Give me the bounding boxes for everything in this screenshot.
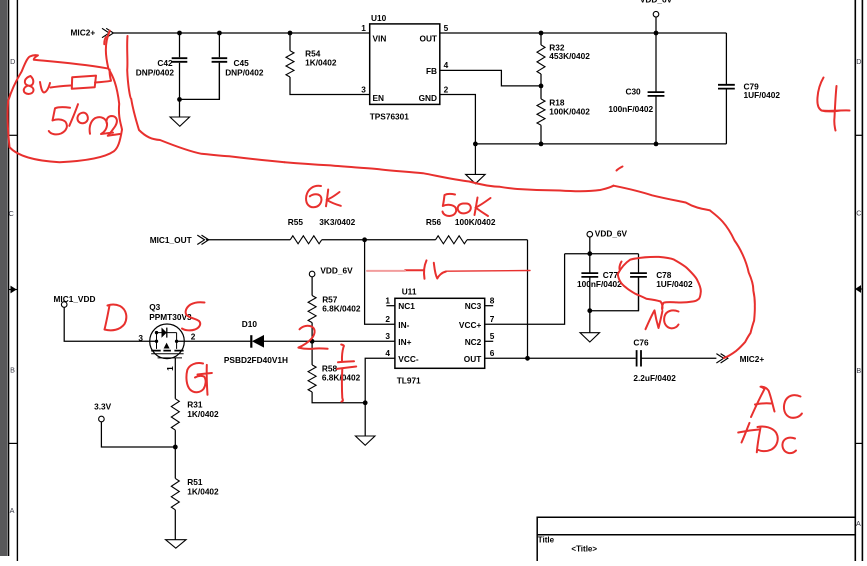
node junction OUT/feedback xyxy=(525,356,530,361)
svg-text:MIC1_VDD: MIC1_VDD xyxy=(54,294,96,304)
resistor R57 xyxy=(311,277,313,296)
connector MIC2+ (off-page, left) xyxy=(102,28,113,37)
node junction OUT/VDD xyxy=(654,31,659,36)
right border line outer xyxy=(861,0,863,561)
red annotation: long wavy horizontal xyxy=(285,162,614,191)
svg-text:VCC-: VCC- xyxy=(398,354,419,364)
wire D10 to junction/IN+ xyxy=(263,340,395,342)
svg-text:VDD_6V: VDD_6V xyxy=(640,0,673,4)
svg-text:NC3: NC3 xyxy=(465,301,482,311)
wire VCC- to ground xyxy=(365,358,395,403)
svg-text:C: C xyxy=(856,209,861,218)
wire C77/C78 bottom join xyxy=(590,277,639,311)
op-amp regulator U10 box xyxy=(370,24,440,105)
red annotation: +Dc text xyxy=(738,423,759,443)
ground (C77/C78) xyxy=(580,333,600,342)
node junction VCC-/R58 gnd xyxy=(363,400,368,405)
red annotation: wire from box with hook xyxy=(95,70,111,83)
svg-text:100K/0402: 100K/0402 xyxy=(549,106,590,116)
wire MIC2+ to U10 VIN xyxy=(113,32,369,34)
svg-text:100nF/0402: 100nF/0402 xyxy=(577,279,622,289)
svg-text:MIC2+: MIC2+ xyxy=(71,28,96,38)
svg-text:DNP/0402: DNP/0402 xyxy=(136,67,175,77)
capacitor C78 xyxy=(638,254,640,311)
red annotation: capacitor sketch lighter lead xyxy=(367,270,405,272)
red annotation: 6k text xyxy=(306,186,321,208)
red annotation: capacitor sketch on IN- line xyxy=(405,269,423,271)
svg-text:IN-: IN- xyxy=(398,320,409,330)
svg-text:VDD_6V: VDD_6V xyxy=(595,228,628,238)
node junction VDD/C77 xyxy=(587,251,592,256)
svg-text:1: 1 xyxy=(165,366,175,371)
capacitor C42 xyxy=(179,33,181,99)
node junction FB divider xyxy=(539,84,544,89)
diode D10 PSBD2FD40V1H xyxy=(253,336,264,347)
svg-text:NC1: NC1 xyxy=(398,301,415,311)
svg-text:1UF/0402: 1UF/0402 xyxy=(744,90,781,100)
connector MIC1_OUT (off-page) xyxy=(197,235,208,244)
svg-text:1K/0402: 1K/0402 xyxy=(187,486,219,496)
svg-text:VDD_6V: VDD_6V xyxy=(320,265,353,275)
ground (R51) xyxy=(166,540,187,549)
wire VCC+ to VDD rail xyxy=(485,254,565,325)
red annotation: letter S near Q3 xyxy=(182,302,205,330)
U11 pin 8 NC3 stub xyxy=(485,305,494,307)
power symbol MIC1_VDD xyxy=(61,302,67,308)
svg-text:5: 5 xyxy=(444,23,449,33)
wire C76 to MIC2+ out xyxy=(641,357,716,359)
svg-text:VCC+: VCC+ xyxy=(459,320,482,330)
resistor R32 xyxy=(540,33,542,45)
connector MIC2+ output xyxy=(716,354,727,363)
node junction rail/gnd xyxy=(473,142,478,147)
svg-text:U10: U10 xyxy=(371,13,387,23)
red annotation: numeral 4 right xyxy=(817,78,849,131)
red annotation: vertical squiggle with cap bars xyxy=(341,345,344,362)
svg-text:1K/0402: 1K/0402 xyxy=(305,58,337,68)
capacitor C76 xyxy=(637,350,641,366)
transistor Q3 PPMT30V3 (PMOS) xyxy=(150,324,185,359)
svg-text:100nF/0402: 100nF/0402 xyxy=(608,104,653,114)
red annotation: wire to box xyxy=(51,86,71,88)
svg-text:PSBD2FD40V1H: PSBD2FD40V1H xyxy=(224,355,288,365)
svg-text:6.8K/0402: 6.8K/0402 xyxy=(322,304,361,314)
wire 3.3V to R31/R51 junction xyxy=(101,422,175,447)
red annotation: NC loop around C78 xyxy=(618,257,701,310)
svg-text:D10: D10 xyxy=(242,319,258,329)
svg-text:C: C xyxy=(9,209,14,218)
red annotation: letter D near Q3 xyxy=(105,305,127,331)
svg-text:3K3/0402: 3K3/0402 xyxy=(319,217,355,227)
svg-text:1K/0402: 1K/0402 xyxy=(187,409,219,419)
svg-text:NC2: NC2 xyxy=(465,337,482,347)
wire to ground xyxy=(179,99,181,117)
capacitor C77 xyxy=(589,254,591,311)
ground (U11) xyxy=(355,436,375,445)
node junction rail/R18 xyxy=(539,142,544,147)
wire VDD rail over C77 C78 xyxy=(565,253,639,255)
node junction gnd top xyxy=(177,97,182,102)
node junction R31/R51 xyxy=(173,445,178,450)
right zone tick 2 xyxy=(855,442,862,444)
red annotation: NC text xyxy=(646,310,663,329)
power symbol VDD_6V at R57 xyxy=(309,271,315,277)
svg-text:453K/0402: 453K/0402 xyxy=(549,51,590,61)
node junction OUT/R32 xyxy=(539,31,544,36)
U11 pin 5 NC2 stub xyxy=(485,340,494,342)
resistor R18 xyxy=(540,86,542,99)
capacitor C30 xyxy=(655,33,657,144)
wire Q3 drain to D10 xyxy=(177,340,250,342)
wire R56 right down to OUT (feedback) xyxy=(527,240,529,358)
svg-text:3.3V: 3.3V xyxy=(94,401,112,411)
svg-text:3: 3 xyxy=(138,333,143,343)
svg-text:R55: R55 xyxy=(288,217,304,227)
wire FB to divider xyxy=(440,70,541,86)
right border line inner xyxy=(854,0,856,561)
right zone tick 1 xyxy=(855,134,862,136)
svg-text:VIN: VIN xyxy=(373,34,387,44)
svg-text:TPS76301: TPS76301 xyxy=(370,112,410,122)
power symbol VDD (top, cut off) xyxy=(653,11,659,17)
svg-text:OUT: OUT xyxy=(419,34,437,44)
left border line inner xyxy=(8,0,10,556)
power symbol 3.3V xyxy=(99,416,105,422)
node junction C77 gnd xyxy=(587,308,592,313)
resistor R58 xyxy=(311,341,313,365)
svg-text:4: 4 xyxy=(385,348,390,358)
svg-text:100K/0402: 100K/0402 xyxy=(455,217,496,227)
red annotation: 8v text xyxy=(24,76,34,94)
resistor R56 xyxy=(436,236,468,244)
left border line outer xyxy=(16,0,18,561)
red annotation: enclosing blob top-left xyxy=(8,31,122,163)
ground (input filter) xyxy=(170,117,190,126)
svg-text:7: 7 xyxy=(490,314,495,324)
svg-text:Title: Title xyxy=(538,536,555,545)
wire MIC1_OUT row xyxy=(206,239,528,241)
wire rail to ground symbol xyxy=(474,144,476,175)
wire to middle ground xyxy=(364,403,366,436)
left zone tick 1 xyxy=(9,134,18,136)
node junction C42 xyxy=(177,31,182,36)
red annotation: letter G near Q3 xyxy=(186,363,205,392)
svg-text:A: A xyxy=(856,519,861,528)
red annotation: long curve start at MIC2+ xyxy=(104,37,106,44)
left center arrow marker xyxy=(9,289,18,291)
svg-text:4: 4 xyxy=(444,60,449,70)
red annotation: box (component sketch) xyxy=(72,76,96,89)
wire MIC1_VDD down and right xyxy=(64,307,156,341)
capacitor C79 xyxy=(725,33,727,144)
wire Q3 gate down to R31 xyxy=(174,358,176,399)
svg-text:MIC2+: MIC2+ xyxy=(740,354,765,364)
svg-text:TL971: TL971 xyxy=(397,376,421,386)
red annotation: numeral 2 near junction xyxy=(298,326,327,349)
wire U10 OUT rail xyxy=(440,32,727,34)
svg-text:Q3: Q3 xyxy=(149,302,160,312)
red annotation: 50K text xyxy=(443,194,457,216)
svg-text:EN: EN xyxy=(373,93,385,103)
svg-text:3: 3 xyxy=(385,331,390,341)
svg-text:2.2uF/0402: 2.2uF/0402 xyxy=(633,373,676,383)
right center arrow marker xyxy=(855,288,862,290)
svg-text:C76: C76 xyxy=(633,337,649,347)
svg-text:8: 8 xyxy=(490,295,495,305)
svg-text:<Title>: <Title> xyxy=(571,545,597,554)
svg-text:1UF/0402: 1UF/0402 xyxy=(656,279,693,289)
left zone tick 2 xyxy=(9,442,18,444)
svg-text:5: 5 xyxy=(490,331,495,341)
svg-text:A: A xyxy=(10,506,15,515)
ground (top circuit) xyxy=(466,174,486,183)
wire VDD down to rail xyxy=(589,237,591,254)
red annotation: AC text xyxy=(751,387,775,417)
capacitor C45 xyxy=(218,33,220,99)
svg-text:B: B xyxy=(856,366,861,375)
svg-text:GND: GND xyxy=(419,93,437,103)
wire GND down xyxy=(440,95,476,144)
sheet margin dark strip xyxy=(0,0,8,556)
red annotation: long curve right arc xyxy=(614,186,755,358)
svg-text:D: D xyxy=(10,57,15,66)
svg-text:R56: R56 xyxy=(426,217,442,227)
resistor R31 xyxy=(171,399,179,430)
wire down to ground xyxy=(589,311,591,333)
resistor R55 xyxy=(290,236,322,244)
svg-text:6: 6 xyxy=(490,348,495,358)
node junction rail/C30 xyxy=(654,142,659,147)
svg-text:1: 1 xyxy=(361,23,366,33)
title block xyxy=(537,517,855,561)
wire junction down to IN- xyxy=(365,240,395,324)
node junction R57/R58 on IN+ xyxy=(310,339,315,344)
wire OUT row xyxy=(485,357,636,359)
svg-text:FB: FB xyxy=(426,66,437,76)
svg-text:2: 2 xyxy=(444,85,449,95)
wire C42-C45 bottom join xyxy=(180,63,220,100)
svg-text:D: D xyxy=(856,57,861,66)
svg-text:IN+: IN+ xyxy=(398,337,411,347)
red annotation: small dash above curve xyxy=(617,167,623,171)
node junction R55/R56/IN- xyxy=(362,237,367,242)
node junction R54 xyxy=(288,31,293,36)
svg-text:U11: U11 xyxy=(402,286,417,296)
wire ground rail (top circuit) xyxy=(475,143,726,145)
svg-text:MIC1_OUT: MIC1_OUT xyxy=(150,235,192,245)
red annotation: 5/0ohm2 text xyxy=(49,107,70,134)
power symbol VDD_6V at C77 xyxy=(587,231,593,237)
svg-text:C30: C30 xyxy=(625,87,641,97)
svg-text:1: 1 xyxy=(385,295,390,305)
U11 pin 1 NC1 stub xyxy=(386,305,395,307)
resistor R51 xyxy=(174,447,176,478)
svg-text:B: B xyxy=(10,366,15,375)
resistor R54 xyxy=(289,33,291,51)
svg-text:3: 3 xyxy=(361,85,366,95)
svg-text:DNP/0402: DNP/0402 xyxy=(225,67,264,77)
svg-text:OUT: OUT xyxy=(464,354,482,364)
svg-text:2: 2 xyxy=(191,331,196,341)
D10 cathode bar xyxy=(250,335,252,348)
node junction C45 xyxy=(217,31,222,36)
svg-text:2: 2 xyxy=(385,314,390,324)
op-amp U11 TL971 box xyxy=(395,298,485,368)
